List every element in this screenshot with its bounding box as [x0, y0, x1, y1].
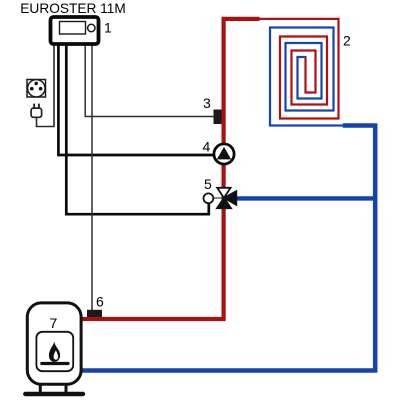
wire sensor-6 from controller: [91, 45, 93, 310]
outlet (wall socket): [27, 80, 46, 98]
svg-text:3: 3: [203, 95, 211, 111]
wire valve (thick) controller to valve actuator: [66, 45, 209, 214]
svg-text:4: 4: [203, 139, 211, 155]
controller U1 (EUROSTER): [51, 17, 99, 44]
pipe red top run into coil / coil supply spiral: [258, 19, 339, 119]
svg-text:6: 6: [96, 293, 104, 309]
plug: [31, 104, 41, 118]
coil 2 return spiral (blue): [270, 28, 344, 126]
valve 5 (3-way mixing valve): [204, 188, 237, 208]
svg-text:EUROSTER 11M: EUROSTER 11M: [20, 0, 126, 16]
pipe blue return: coil exit to right riser: [80, 126, 375, 371]
sensor 3 (on supply pipe): [214, 110, 222, 125]
pipe red supply: boiler to pump to coil: [80, 19, 260, 319]
pump 4: [214, 144, 234, 164]
wire power-cord from plug to controller: [37, 45, 55, 126]
svg-text:5: 5: [204, 176, 212, 192]
svg-text:2: 2: [343, 33, 351, 49]
wire pump (thick) controller to pump U4: [58, 45, 213, 155]
wire sensor-3 from controller: [85, 45, 213, 116]
sensor 6 (on boiler supply): [87, 310, 102, 317]
svg-text:1: 1: [104, 20, 112, 36]
pipe blue branch to valve: [235, 196, 375, 200]
svg-text:7: 7: [50, 315, 58, 331]
boiler 7: [25, 303, 83, 394]
